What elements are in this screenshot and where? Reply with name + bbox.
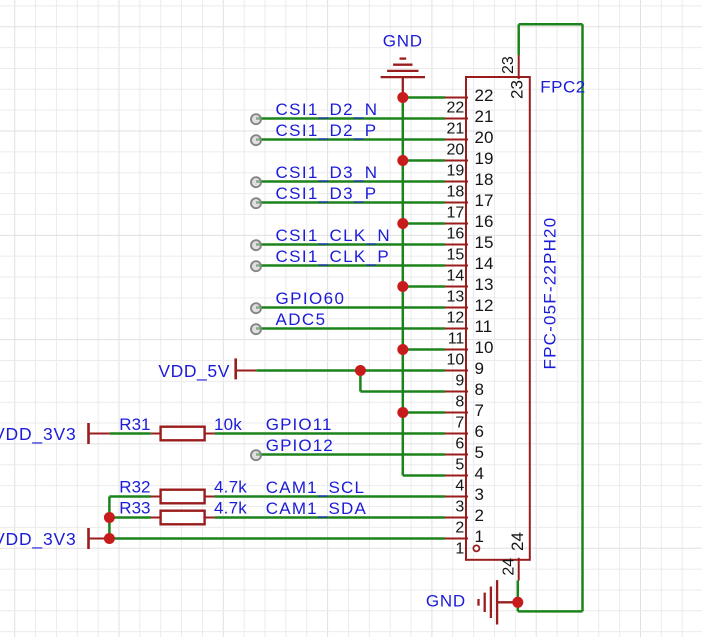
- svg-text:24: 24: [508, 532, 527, 551]
- svg-text:15: 15: [475, 233, 494, 252]
- svg-text:2: 2: [455, 519, 464, 536]
- wire GND to pin 19: [403, 159, 445, 162]
- svg-text:2: 2: [475, 506, 484, 525]
- wire GND to pin 16: [403, 222, 445, 225]
- junction VDD_5V: [355, 365, 366, 376]
- open end CSI1_D3_P: [251, 198, 261, 208]
- wire ADC5 to pin 11: [256, 327, 445, 330]
- junction GND at pin 10 row: [397, 344, 408, 355]
- pin 15: [445, 233, 493, 263]
- wire VDD_3V3 to R32: [109, 495, 151, 498]
- svg-text:4.7k: 4.7k: [214, 499, 247, 518]
- wire GPIO60 to pin 12: [256, 306, 445, 309]
- wire CSI1_CLK_N to pin 15: [256, 243, 445, 246]
- open end CSI1_CLK_P: [251, 261, 261, 271]
- svg-text:22: 22: [447, 99, 465, 116]
- svg-text:13: 13: [447, 288, 465, 305]
- open end CSI1_D2_N: [251, 114, 261, 124]
- wire GND to pin 13: [403, 285, 445, 288]
- wire VDD_5V from supply: [256, 369, 360, 372]
- wire pin 23 up: [517, 24, 520, 55]
- svg-text:FPC2: FPC2: [540, 78, 585, 97]
- wire right vertical: [581, 24, 584, 611]
- wire VDD_3V3 to R31: [110, 432, 151, 435]
- svg-text:24: 24: [500, 558, 517, 576]
- open end CSI1_CLK_N: [251, 240, 261, 250]
- svg-text:12: 12: [475, 296, 494, 315]
- svg-text:6: 6: [455, 435, 464, 452]
- svg-text:3: 3: [455, 498, 464, 515]
- pin 20: [445, 128, 493, 159]
- svg-text:9: 9: [455, 372, 464, 389]
- ground symbol GND (top): [381, 59, 425, 98]
- svg-text:VDD_3V3: VDD_3V3: [0, 529, 77, 550]
- pin 23: [500, 55, 526, 99]
- svg-text:R31: R31: [119, 415, 150, 434]
- pin 22: [445, 86, 493, 117]
- svg-text:GND: GND: [426, 591, 466, 610]
- svg-text:6: 6: [475, 422, 484, 441]
- svg-text:GPIO60: GPIO60: [276, 289, 346, 308]
- svg-text:CSI1_D3_P: CSI1_D3_P: [276, 184, 378, 203]
- wire CAM1_SCL R32 to pin 3: [215, 495, 445, 498]
- svg-text:16: 16: [475, 212, 494, 231]
- ground symbol GND (bottom): [479, 580, 518, 624]
- svg-text:VDD_3V3: VDD_3V3: [0, 424, 77, 445]
- wire VDD_5V to pin 9: [360, 369, 445, 372]
- wire VDD_3V3 to pin 1: [109, 537, 445, 540]
- svg-text:CSI1_CLK_P: CSI1_CLK_P: [276, 247, 391, 266]
- svg-text:18: 18: [475, 170, 494, 189]
- pin 8: [445, 380, 484, 411]
- svg-text:9: 9: [475, 359, 484, 378]
- svg-text:23: 23: [507, 80, 526, 99]
- svg-text:21: 21: [447, 120, 465, 137]
- wire CSI1_D3_N to pin 18: [256, 180, 445, 183]
- pin 12: [445, 296, 493, 327]
- wire GND vertical trunk: [402, 98, 405, 476]
- resistor R32: [151, 490, 215, 504]
- svg-text:R33: R33: [119, 499, 150, 518]
- svg-text:10: 10: [447, 351, 465, 368]
- pin 14: [445, 254, 493, 285]
- svg-text:CSI1_D2_P: CSI1_D2_P: [276, 121, 378, 140]
- wire VDD_5V to pin 8: [360, 390, 445, 393]
- svg-text:CSI1_D3_N: CSI1_D3_N: [276, 163, 379, 182]
- svg-text:7: 7: [455, 414, 464, 431]
- svg-text:17: 17: [447, 204, 465, 221]
- svg-text:R32: R32: [119, 478, 150, 497]
- svg-text:21: 21: [475, 107, 494, 126]
- junction GND at pin 13 row: [397, 281, 408, 292]
- open end CSI1_D3_N: [251, 177, 261, 187]
- svg-text:CAM1_SCL: CAM1_SCL: [266, 478, 365, 497]
- wire pin 24 down to GND: [517, 581, 520, 612]
- pin 13: [445, 275, 493, 306]
- wire CSI1_D2_N to pin 21: [256, 117, 445, 120]
- wire GPIO11 R31 to pin 6: [215, 432, 445, 435]
- resistor R31: [151, 427, 215, 441]
- pin 11: [445, 317, 492, 348]
- wire CAM1_SDA R33 to pin 2: [215, 516, 445, 519]
- svg-text:10: 10: [475, 338, 494, 357]
- svg-text:3: 3: [475, 485, 484, 504]
- svg-text:CSI1_D2_N: CSI1_D2_N: [276, 100, 379, 119]
- svg-text:GPIO11: GPIO11: [266, 415, 333, 434]
- wire GPIO12 to pin 5: [256, 453, 445, 456]
- pin 1 polarity circle: [473, 545, 479, 551]
- svg-text:GND: GND: [383, 31, 423, 50]
- pin 17: [445, 191, 493, 222]
- svg-text:CAM1_SDA: CAM1_SDA: [266, 499, 367, 518]
- pin 19: [445, 149, 493, 180]
- wire CSI1_CLK_P to pin 14: [256, 264, 445, 267]
- wire CSI1_D3_P to pin 17: [256, 201, 445, 204]
- open end GPIO60: [251, 303, 261, 313]
- junction VDD_3V3 at pin 1 row: [104, 533, 115, 544]
- svg-text:15: 15: [447, 246, 465, 263]
- svg-text:5: 5: [455, 456, 464, 473]
- svg-text:19: 19: [475, 149, 494, 168]
- resistor R33: [151, 511, 215, 525]
- svg-text:7: 7: [475, 401, 484, 420]
- junction GND at pin 7 row: [397, 407, 408, 418]
- supply symbol VDD_3V3 (upper): [89, 423, 110, 444]
- pin 24: [500, 532, 527, 580]
- svg-text:8: 8: [475, 380, 484, 399]
- wire top horizontal: [519, 23, 583, 26]
- supply symbol VDD_3V3 (lower): [89, 528, 110, 549]
- svg-text:11: 11: [475, 317, 493, 336]
- svg-text:14: 14: [475, 254, 494, 273]
- svg-text:12: 12: [447, 309, 465, 326]
- wire CSI1_D2_P to pin 20: [256, 138, 445, 141]
- pin 21: [445, 107, 493, 138]
- supply symbol VDD_5V: [236, 358, 257, 379]
- pin 16: [445, 212, 493, 243]
- pin 2: [445, 506, 484, 537]
- junction GND bottom: [512, 597, 523, 608]
- wire VDD_3V3 to R33: [109, 516, 151, 519]
- pin 5: [445, 443, 484, 474]
- svg-text:20: 20: [447, 141, 465, 158]
- svg-text:14: 14: [447, 267, 465, 284]
- junction GND at pin 19 row: [397, 155, 408, 166]
- svg-text:4: 4: [475, 464, 484, 483]
- svg-text:19: 19: [447, 162, 465, 179]
- wire bottom horizontal: [518, 610, 583, 613]
- pin 10: [445, 338, 493, 369]
- svg-text:ADC5: ADC5: [276, 310, 327, 329]
- svg-text:VDD_5V: VDD_5V: [158, 361, 230, 382]
- svg-text:4.7k: 4.7k: [214, 478, 247, 497]
- wire VDD_3V3 vertical: [108, 497, 111, 539]
- wire GND to pin 10: [403, 348, 445, 351]
- wire GND to pin 22: [403, 96, 445, 99]
- svg-text:13: 13: [475, 275, 494, 294]
- svg-text:18: 18: [447, 183, 465, 200]
- svg-text:8: 8: [455, 393, 464, 410]
- pin 6: [445, 422, 484, 453]
- junction VDD_3V3 at R33 row: [104, 512, 115, 523]
- connector FPC2 body: [466, 77, 530, 560]
- svg-text:4: 4: [455, 477, 464, 494]
- svg-text:1: 1: [475, 527, 484, 546]
- svg-text:23: 23: [500, 56, 517, 74]
- pin 4: [445, 464, 484, 495]
- wire GND to pin 7: [403, 411, 445, 414]
- svg-text:1: 1: [455, 540, 464, 557]
- svg-text:10k: 10k: [214, 415, 242, 434]
- junction GND at pin 16 row: [397, 218, 408, 229]
- svg-text:FPC-05F-22PH20: FPC-05F-22PH20: [541, 217, 560, 370]
- svg-text:5: 5: [475, 443, 484, 462]
- svg-text:20: 20: [475, 128, 494, 147]
- wire VDD_5V vertical jog: [359, 371, 362, 392]
- pin 3: [445, 485, 484, 516]
- pin 18: [445, 170, 493, 201]
- pin 9: [445, 359, 484, 390]
- svg-text:CSI1_CLK_N: CSI1_CLK_N: [276, 226, 392, 245]
- svg-text:16: 16: [447, 225, 465, 242]
- pin 7: [445, 401, 484, 432]
- open end ADC5: [251, 324, 261, 334]
- pin 1: [445, 527, 484, 558]
- junction GND at pin 22 row: [397, 92, 408, 103]
- svg-text:17: 17: [475, 191, 494, 210]
- svg-text:GPIO12: GPIO12: [266, 436, 334, 455]
- wire GND to pin 4: [403, 474, 445, 477]
- open end CSI1_D2_P: [251, 135, 261, 145]
- open end GPIO12: [251, 450, 261, 460]
- svg-text:22: 22: [475, 86, 494, 105]
- svg-text:11: 11: [448, 330, 465, 347]
